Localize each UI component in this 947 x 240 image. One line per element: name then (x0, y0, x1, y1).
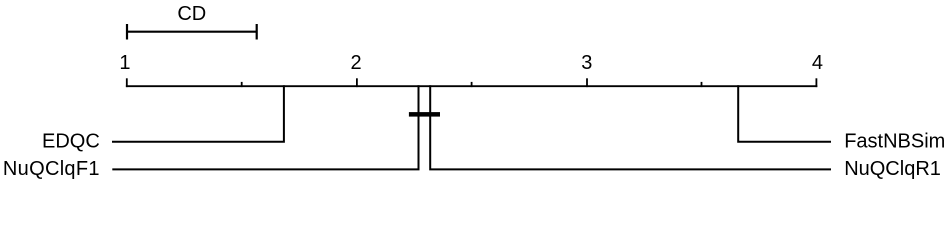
NuQClqF1 connector line (112, 85, 418, 169)
clique bar (409, 112, 440, 117)
NuQClqR1 connector line (430, 85, 831, 169)
svg-text:FastNBSim: FastNBSim (844, 131, 945, 153)
svg-text:EDQC: EDQC (42, 131, 100, 153)
svg-text:2: 2 (350, 52, 361, 74)
axis line (126, 85, 817, 87)
FastNBSim connector line (738, 85, 831, 142)
svg-text:CD: CD (177, 3, 206, 25)
svg-text:1: 1 (119, 52, 130, 74)
EDQC connector line (112, 85, 284, 142)
CD ruler bar (127, 24, 257, 40)
svg-text:NuQClqF1: NuQClqF1 (3, 158, 100, 180)
svg-text:NuQClqR1: NuQClqR1 (844, 158, 941, 180)
major ticks (127, 78, 817, 87)
svg-text:3: 3 (581, 52, 592, 74)
svg-text:4: 4 (812, 52, 823, 74)
minor ticks (242, 82, 702, 87)
